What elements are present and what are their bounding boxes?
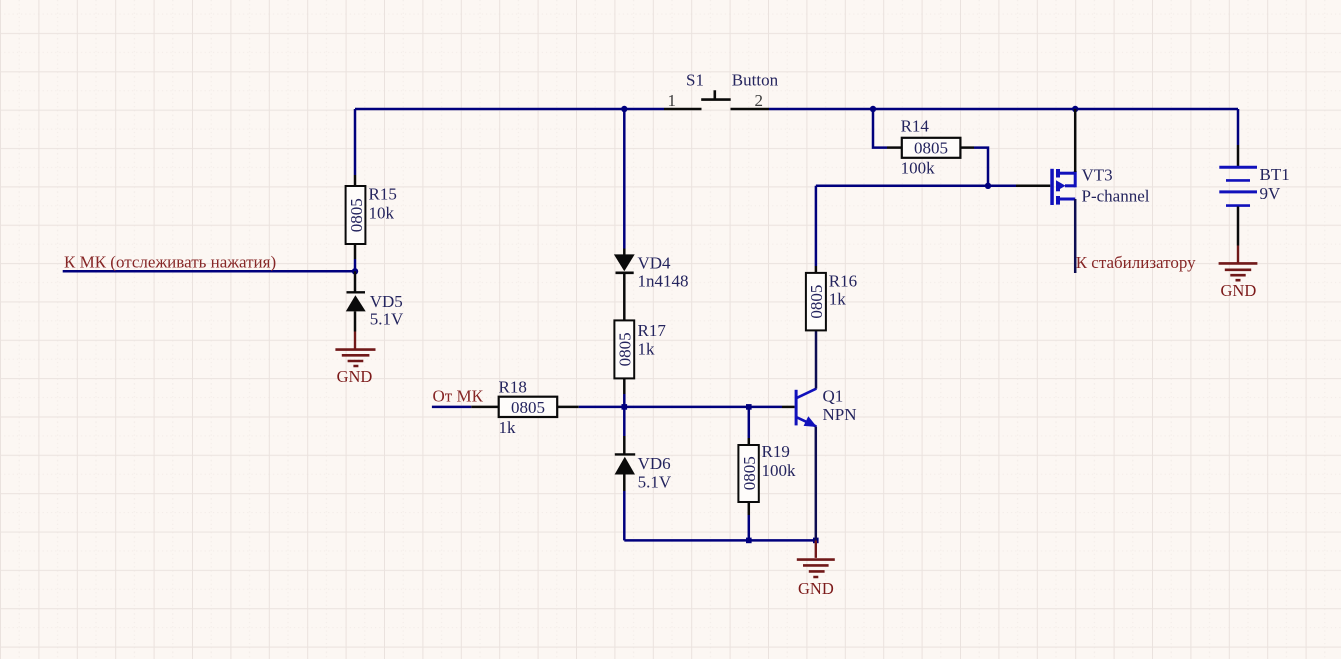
wire: top power net horizontal [355,108,1238,111]
node: junction base net / R19 branch [746,404,752,410]
svg-text:2: 2 [755,91,764,110]
svg-text:100k: 100k [901,159,936,178]
svg-text:0805: 0805 [807,285,826,319]
wire: VD5 top pin [354,271,357,292]
node: junction base net / VD6 branch [622,404,628,410]
wire: Ot MK net [432,406,499,409]
svg-text:0805: 0805 [616,332,635,366]
wire: R15 top vertical [354,109,357,186]
svg-text:R16: R16 [829,272,857,291]
wire: gate pin stub [988,185,1050,188]
resistor R19 [738,442,796,502]
svg-text:0805: 0805 [914,138,948,157]
wire: R14 left pin [873,109,902,148]
node: junction ground net / R19 [746,538,752,544]
svg-text:VD4: VD4 [638,253,672,272]
wire: R19 bottom pin [748,502,751,540]
resistor R14 [901,117,961,178]
node: junction top net / VT3 source [1072,106,1078,112]
svg-text:0805: 0805 [740,456,759,490]
svg-text:0805: 0805 [347,198,366,232]
diode VD4 1n4148 [614,253,689,290]
wire: R14 right pin [960,148,988,186]
wire: VT3 drain vertical [1074,199,1077,273]
svg-text:1n4148: 1n4148 [638,272,689,291]
svg-text:Button: Button [732,71,779,90]
node: junction top net / R14 branch [870,106,876,112]
wire: R17 bottom pin [623,378,626,407]
wire: R19 top branch [748,407,751,445]
resistor R15 [346,185,397,245]
ground (battery) [1219,263,1258,300]
svg-text:GND: GND [1221,281,1257,300]
svg-text:VD5: VD5 [370,292,403,311]
wire: R18 right pin to base net [557,406,794,409]
svg-text:0805: 0805 [511,398,545,417]
node: junction top net / VD4 branch [621,106,627,112]
svg-text:R19: R19 [762,442,790,461]
svg-text:1k: 1k [829,290,847,309]
svg-text:5.1V: 5.1V [638,473,672,492]
svg-text:R14: R14 [901,117,930,136]
wire: S1 pin2 stub [731,108,770,111]
svg-text:GND: GND [337,367,373,386]
wire: VD6 bottom pin [623,475,626,541]
svg-text:Q1: Q1 [823,386,844,405]
transistor VT3 P-channel MOSFET [1050,165,1149,205]
svg-text:К МК (отслеживать нажатия): К МК (отслеживать нажатия) [64,253,276,272]
svg-text:1k: 1k [499,418,517,437]
ground (Q1 emitter) [797,560,835,598]
svg-text:GND: GND [798,579,834,598]
switch S1 [686,71,779,100]
wire: R16 top vertical [815,186,818,273]
battery BT1 9V [1219,165,1289,206]
wire: R15 bottom pin [354,244,357,271]
resistor R16 [806,272,857,331]
wire: Q1 emitter vertical [815,427,818,541]
wire: VD5 bottom pin [354,311,357,331]
svg-text:К стабилизатору: К стабилизатору [1076,253,1196,272]
wire: VD5 ground stub [354,332,356,350]
diode VD6 (zener 5.1V) [615,454,672,492]
svg-text:100k: 100k [762,461,797,480]
svg-text:9V: 9V [1260,184,1282,203]
transistor Q1 NPN [795,386,857,427]
diode VD5 (zener 5.1V) [346,292,404,329]
node: junction gate net / R14 [985,183,991,189]
ground (VD5) [335,350,375,386]
svg-text:От МК: От МК [433,386,484,405]
wire: battery bottom vertical [1237,207,1240,246]
wire: Q1 ground stub [815,540,817,558]
svg-text:VT3: VT3 [1082,165,1113,184]
resistor R18 [499,378,558,438]
node: junction ground net / emitter [813,538,819,544]
wire: VD4 to R17 pin [623,273,626,321]
svg-text:P-channel: P-channel [1082,186,1150,205]
svg-text:NPN: NPN [823,405,857,424]
svg-text:R17: R17 [638,321,667,340]
svg-text:S1: S1 [686,71,704,90]
resistor R17 [614,320,666,378]
wire: VD4 branch vertical [623,109,626,255]
wire: emitter ground net horizontal [624,539,816,542]
wire: VT3 source vertical [1074,109,1077,172]
svg-text:VD6: VD6 [638,454,671,473]
node: junction R15/VD5/K MK [352,268,358,274]
svg-text:R15: R15 [369,185,397,204]
wire: S1 pin1 stub [664,108,702,111]
svg-text:BT1: BT1 [1260,165,1290,184]
svg-text:R18: R18 [499,378,527,397]
svg-text:1k: 1k [638,340,656,359]
svg-text:5.1V: 5.1V [370,310,404,329]
wire: K MK net horizontal [63,270,355,273]
wire: battery top vertical [1237,109,1240,166]
wire: gate net horizontal [816,185,988,188]
svg-text:1: 1 [668,91,677,110]
svg-text:10k: 10k [369,204,395,223]
wire: Q1 collector vertical [815,330,818,388]
wire: VD6 branch vertical [623,407,626,455]
wire: battery ground stub [1237,246,1239,264]
